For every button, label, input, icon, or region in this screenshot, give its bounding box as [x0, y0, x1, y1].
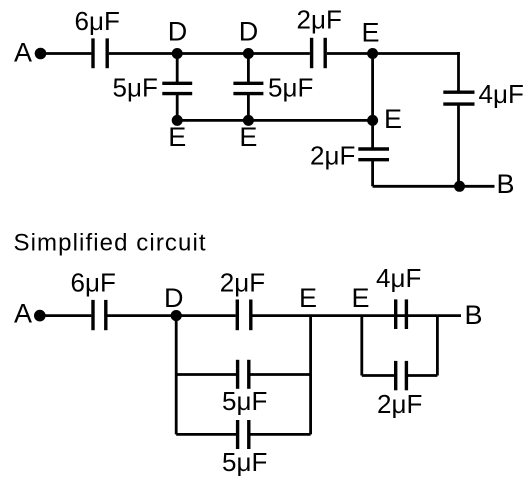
wire right side top corner down to 4uF — [457, 52, 460, 92]
svg-text:2μF: 2μF — [220, 268, 265, 298]
svg-text:Simplified circuit: Simplified circuit — [14, 230, 207, 257]
wire 4uF down to node B — [457, 104, 460, 186]
node D (second) junction dot — [243, 48, 254, 59]
capacitor C4 2uF (series, top line) — [312, 38, 326, 68]
capacitor C10 5uF (parallel branch 2) — [238, 420, 249, 449]
svg-text:A: A — [14, 298, 32, 328]
wire left vertical of D parallel group — [175, 316, 178, 435]
wire right vertical of D parallel group — [309, 316, 312, 435]
node E rail junction dot (second) — [243, 115, 254, 126]
capacitor C11 4uF (top of E parallel group) — [396, 299, 407, 329]
wire E down to 2uF shunt cap — [371, 120, 374, 148]
wire bottom to node B — [373, 185, 495, 188]
wire left vertical of E parallel group — [360, 316, 363, 376]
svg-text:4μF: 4μF — [479, 79, 524, 109]
node E (top) junction dot — [367, 48, 378, 59]
wire A to C1 — [44, 52, 91, 55]
svg-text:6μF: 6μF — [75, 6, 120, 36]
wire branch 2 right segment — [251, 433, 311, 436]
svg-text:2μF: 2μF — [297, 4, 342, 34]
node D (first) junction dot — [172, 48, 183, 59]
wire branch D1 down to 5uF — [176, 54, 179, 84]
svg-text:D: D — [239, 17, 258, 47]
wire second 5uF to E rail — [247, 94, 250, 121]
wire node E top down to rail — [371, 54, 374, 121]
node A2 terminal dot — [34, 310, 46, 322]
capacitor C1 6uF — [93, 38, 107, 68]
svg-text:D: D — [168, 17, 188, 47]
svg-text:E: E — [362, 17, 380, 47]
wire right vertical of E parallel group — [436, 316, 439, 376]
wire to node B2 — [437, 314, 461, 317]
svg-text:B: B — [465, 300, 483, 330]
capacitor C2 5uF (first shunt) — [162, 83, 192, 93]
capacitor C12 2uF (bottom of E parallel group) — [396, 361, 407, 390]
svg-text:5μF: 5μF — [113, 73, 158, 103]
svg-text:E: E — [352, 283, 370, 313]
svg-text:5μF: 5μF — [222, 447, 267, 477]
svg-text:E: E — [239, 122, 257, 152]
svg-text:2μF: 2μF — [377, 389, 422, 419]
capacitor C6 2uF (bottom shunt) — [358, 149, 389, 160]
wire C8 to right parallel group through nodes E,E — [253, 314, 438, 317]
node E mid junction dot — [367, 115, 378, 126]
node A terminal dot — [35, 48, 47, 60]
wire bottom branch left segment of E group — [362, 374, 394, 377]
capacitor C7 6uF — [93, 300, 106, 330]
capacitor C8 2uF (series, simplified) — [237, 300, 251, 331]
wire 2uF cap down to bottom wire — [371, 160, 374, 187]
wire C7 to C8 through node D — [108, 314, 236, 317]
svg-text:4μF: 4μF — [376, 263, 421, 293]
wire 2uF cap to corner through node E — [327, 52, 460, 55]
svg-text:A: A — [14, 38, 32, 68]
capacitor C3 5uF (second shunt) — [233, 83, 263, 93]
node D2 junction dot — [171, 310, 182, 321]
wire branch D2 down to 5uF — [247, 54, 250, 84]
wire branch 1 right segment — [251, 373, 311, 376]
capacitor C9 5uF (parallel branch 1) — [238, 360, 249, 389]
svg-text:D: D — [164, 283, 184, 313]
wire E rail (bottom horizontal) — [177, 119, 372, 122]
svg-text:5μF: 5μF — [268, 73, 313, 103]
svg-text:E: E — [168, 122, 186, 152]
wire branch 1 left segment — [176, 373, 236, 376]
svg-text:E: E — [299, 283, 317, 313]
wire bottom branch right segment of E group — [408, 374, 437, 377]
svg-text:B: B — [497, 169, 515, 199]
wire branch 2 left segment — [176, 433, 236, 436]
svg-text:6μF: 6μF — [71, 268, 116, 298]
svg-text:5μF: 5μF — [222, 386, 267, 416]
wire A2 to C7 — [43, 314, 91, 317]
capacitor C5 4uF (right side) — [443, 92, 474, 104]
svg-text:2μF: 2μF — [310, 141, 355, 171]
node E rail junction dot (first) — [172, 115, 183, 126]
svg-text:E: E — [384, 104, 402, 134]
wire 5uF to node E rail — [176, 94, 179, 121]
node B junction dot — [454, 181, 465, 192]
wire C1 to 2uF cap through nodes D,D — [109, 52, 310, 55]
